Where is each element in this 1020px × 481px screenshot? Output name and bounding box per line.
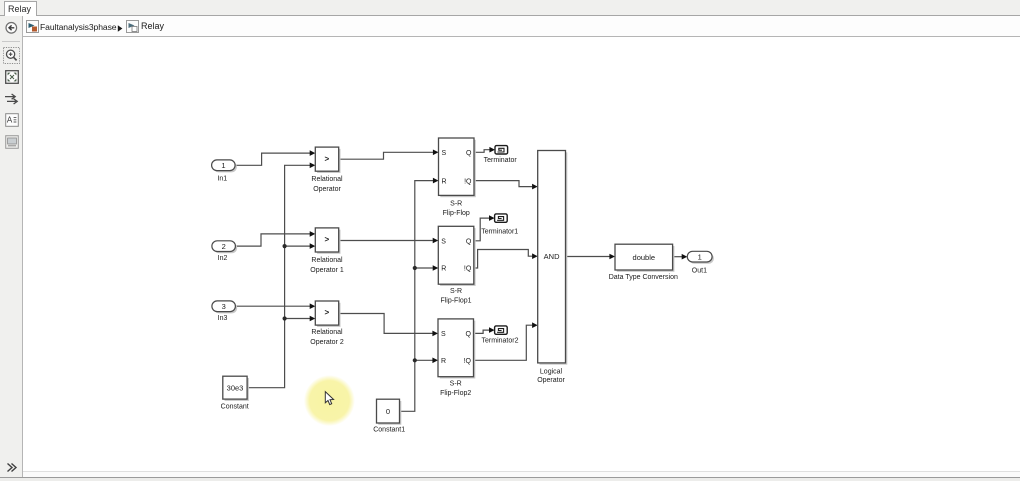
S-R flip-flop2 block: [438, 319, 475, 397]
S-R flip-flop1 block: [438, 226, 475, 304]
input port In1: [212, 160, 237, 182]
relational operator 2 block: [310, 301, 344, 346]
svg-text:>: >: [324, 154, 329, 163]
toolbar fit-view icon: [5, 70, 19, 84]
logical operator AND block: [537, 151, 567, 384]
toolbar separator: [2, 41, 20, 42]
toolbar back button: [4, 21, 19, 35]
mouse cursor: [325, 392, 333, 405]
wire Relational Operator 1 to S-R Flip-Flop1 S: [339, 238, 439, 244]
constant block 30e3: [221, 376, 249, 411]
terminator2 block: [482, 326, 519, 345]
svg-text:1: 1: [698, 252, 702, 261]
wire Data Type Conversion to Out1: [673, 254, 688, 260]
wire Constant1 trunk to R inputs: [400, 178, 439, 411]
constant1 block 0: [373, 399, 405, 433]
svg-text:In3: In3: [218, 315, 228, 322]
svg-text:Out1: Out1: [692, 268, 707, 275]
svg-text:Flip-Flop: Flip-Flop: [443, 210, 470, 217]
breadcrumb model icon 2: [126, 20, 139, 33]
toolbar expand chevrons: [6, 462, 18, 473]
svg-text:Constant: Constant: [221, 404, 249, 411]
wire Relational Operator 2 to S-R Flip-Flop2 S: [339, 314, 438, 337]
wire Logical Operator to Data Type Conversion: [566, 254, 616, 260]
breadcrumb model icon 1: [26, 20, 39, 33]
svg-text:S-R: S-R: [450, 200, 462, 207]
cursor highlight: [304, 375, 355, 426]
bottom strip: [23, 471, 1020, 481]
svg-text:Terminator: Terminator: [484, 157, 518, 164]
toolbar annotation icon: [5, 113, 19, 127]
svg-text:R: R: [441, 266, 446, 273]
relational operator block: [311, 147, 343, 193]
breadcrumb bar: [23, 16, 1020, 37]
wire In3 to Relational Operator 2 input 1: [235, 303, 315, 309]
svg-text:Flip-Flop1: Flip-Flop1: [440, 297, 471, 304]
output port Out1: [687, 251, 714, 274]
svg-text:In1: In1: [217, 175, 227, 182]
wire S-R Flip-Flop1 Q to Terminator1: [474, 215, 495, 241]
S-R flip-flop block: [439, 138, 476, 217]
relational operator 1 block: [310, 228, 344, 274]
svg-text:!Q: !Q: [464, 358, 472, 365]
junction node trunk2-row3: [413, 358, 417, 362]
svg-text:Operator: Operator: [313, 186, 341, 193]
data type conversion block: [609, 244, 678, 281]
svg-text:0: 0: [386, 407, 390, 416]
svg-text:Operator 1: Operator 1: [310, 267, 344, 274]
wire In2 to Relational Operator 1 input 1: [235, 231, 315, 246]
terminator block: [484, 146, 518, 164]
junction node trunk2-row2: [413, 266, 417, 270]
svg-text:In2: In2: [218, 255, 228, 262]
svg-text:2: 2: [222, 242, 226, 251]
tab Relay: [4, 1, 37, 16]
svg-text:Flip-Flop2: Flip-Flop2: [440, 390, 471, 397]
svg-text:Relational: Relational: [311, 176, 343, 183]
wire S-R Flip-Flop2 !Q to Logical Operator input 3: [474, 322, 538, 360]
wire S-R Flip-Flop Q to Terminator: [474, 147, 495, 153]
svg-text:S: S: [442, 150, 447, 157]
svg-text:Operator 2: Operator 2: [310, 339, 344, 346]
svg-text:R: R: [442, 178, 447, 185]
breadcrumb text Faultanalysis3phase: [40, 22, 116, 32]
tab bar: [0, 0, 1020, 16]
svg-text:Terminator2: Terminator2: [482, 338, 519, 345]
svg-text:30e3: 30e3: [227, 384, 244, 393]
svg-text:Q: Q: [466, 150, 472, 157]
svg-text:Constant1: Constant1: [373, 427, 405, 434]
svg-text:double: double: [633, 253, 656, 262]
svg-text:S-R: S-R: [450, 381, 462, 388]
svg-text:Operator: Operator: [537, 377, 565, 384]
svg-text:>: >: [324, 308, 329, 317]
svg-text:Relational: Relational: [311, 329, 343, 336]
wire Constant trunk to second inputs: [247, 163, 315, 388]
svg-text:R: R: [441, 358, 446, 365]
svg-text:!Q: !Q: [464, 178, 472, 185]
toolbar legend icon: [5, 135, 19, 149]
terminator1 block: [481, 214, 518, 236]
svg-text:AND: AND: [544, 252, 560, 261]
svg-text:Q: Q: [466, 331, 472, 338]
svg-text:Logical: Logical: [540, 369, 563, 376]
input port In2: [212, 241, 237, 262]
left toolbar: [0, 16, 23, 480]
wire S-R Flip-Flop2 Q to Terminator2: [474, 327, 495, 333]
toolbar forward arrows icon: [4, 92, 19, 106]
svg-text:S-R: S-R: [450, 288, 462, 295]
toolbar zoom icon: [3, 47, 20, 64]
svg-text:1: 1: [221, 161, 225, 170]
svg-text:>: >: [324, 235, 329, 244]
svg-text:S: S: [441, 239, 446, 246]
svg-text:S: S: [441, 331, 446, 338]
wire S-R Flip-Flop !Q to Logical Operator input 1: [474, 181, 538, 190]
svg-text:!Q: !Q: [464, 266, 472, 273]
junction node trunk1-row3: [283, 316, 287, 320]
svg-text:Relational: Relational: [311, 257, 343, 264]
svg-text:Terminator1: Terminator1: [481, 229, 518, 236]
input port In3: [212, 301, 237, 322]
wire In1 to Relational Operator input 1: [235, 150, 315, 165]
wire Relational Operator to S-R Flip-Flop S: [339, 150, 439, 160]
wire S-R Flip-Flop1 !Q to Logical Operator input 2: [474, 250, 538, 269]
svg-text:Q: Q: [466, 239, 472, 246]
breadcrumb separator: [117, 25, 123, 32]
breadcrumb text Relay: [141, 21, 164, 31]
svg-text:Data Type Conversion: Data Type Conversion: [609, 274, 678, 281]
svg-text:3: 3: [222, 302, 226, 311]
junction node trunk1-row2: [283, 244, 287, 248]
